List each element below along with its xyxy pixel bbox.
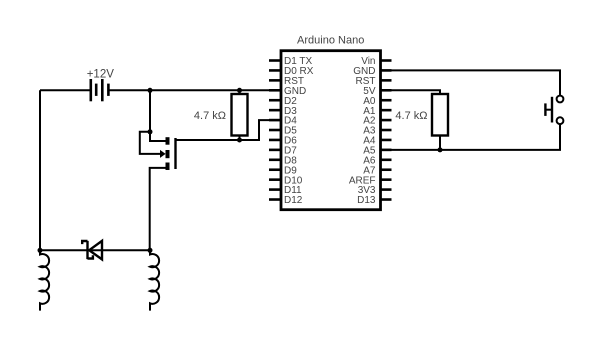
svg-text:D12: D12 [284,195,303,206]
pin stubs left [269,61,281,200]
node junction drain/body [148,129,153,134]
wire drain connector [150,132,166,141]
wire GND to button [381,70,561,95]
transistor Q1 N-MOSFET [160,137,176,170]
wire body connector [140,132,161,154]
wire bottom net [40,249,150,251]
inductor L1 [40,250,49,310]
IC U1 Arduino Nano [281,51,381,210]
svg-text:D13: D13 [357,195,376,206]
svg-text:4.7 kΩ: 4.7 kΩ [395,110,427,122]
pin labels right [349,56,376,206]
resistor R2 [432,94,448,150]
node junction rail/L1 [38,248,43,253]
resistor R1 [232,90,248,140]
svg-text:4.7 kΩ: 4.7 kΩ [194,110,226,122]
wire +12V rail to GND pin [110,89,282,91]
svg-text:Arduino Nano: Arduino Nano [297,35,364,47]
battery BT1 [91,79,109,101]
wire drain feed [149,90,151,132]
pin stubs right [381,61,392,200]
wire gate to D4 [176,120,282,140]
inductor L2 [150,250,159,310]
diode D1 zener [82,241,102,260]
pin labels left [284,56,314,206]
wire left rail down [39,90,41,250]
node junction rail/R1 [237,88,242,93]
svg-text:+12V: +12V [87,69,115,81]
switch SW1 pushbutton [545,96,563,125]
wire source down [150,168,166,250]
wire 5V to R2 [381,90,441,94]
node junction source/L2 [148,248,153,253]
node junction rail/drain [148,88,153,93]
node junction R2/A5 [438,147,443,152]
wire A5 to button [381,124,561,150]
node junction R1/gate net [237,138,242,143]
wire battery left lead [40,89,90,91]
